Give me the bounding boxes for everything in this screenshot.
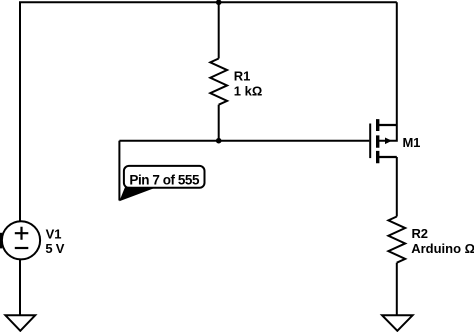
gate bar [369,124,371,159]
channel bars [376,119,379,163]
resistor R1 [210,59,227,105]
svg-text:1 kΩ: 1 kΩ [234,84,262,99]
svg-text:V1: V1 [46,226,62,241]
svg-text:Arduino Ω: Arduino Ω [411,241,474,256]
drain stub [378,124,397,126]
wire gate horizontal [119,140,369,142]
transistor M1 (PMOS) [370,119,397,163]
source stub [378,156,397,158]
ground under V1 [5,315,35,331]
annotation callout box [124,166,205,188]
node junction dot gate [216,138,222,144]
annotation callout tail [119,187,154,202]
svg-text:M1: M1 [403,135,421,150]
body stub with tie to top [378,125,397,141]
wire V1 bottom [19,259,21,315]
wire left vertical (V1 to rail) [19,2,21,221]
wire top rail [19,1,397,3]
wire M1 drain vertical [396,2,398,125]
wire R1 top [218,2,220,58]
wire left drop to callout [118,141,120,201]
wire R1 bottom [218,105,220,141]
svg-text:R1: R1 [234,68,251,83]
voltage source V1 [2,221,40,259]
ground under R2 [382,315,413,331]
node junction dot top [216,0,222,5]
svg-text:Pin 7 of 555: Pin 7 of 555 [129,172,200,187]
svg-text:5 V: 5 V [45,241,64,256]
resistor R2 [388,217,405,263]
wire M1 source vertical [396,157,398,217]
clipped mark at left edge [0,233,2,249]
wire R2 bottom [396,263,398,315]
body arrow [385,138,392,145]
svg-text:R2: R2 [412,226,428,241]
